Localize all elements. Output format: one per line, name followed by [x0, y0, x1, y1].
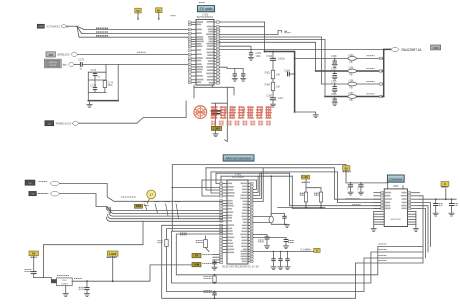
net cap labels	[258, 240, 264, 242]
crystal X501 label tag	[51, 279, 57, 283]
svg-text:5V: 5V	[345, 166, 348, 170]
svg-text:5V: 5V	[32, 252, 36, 256]
capacitor C415	[285, 251, 289, 267]
net accelerator in	[39, 181, 48, 183]
svg-text:C218: C218	[38, 26, 44, 28]
connector label box	[431, 45, 441, 50]
pin tick	[379, 83, 382, 85]
net VCC	[302, 181, 310, 183]
svg-text:10K: 10K	[276, 85, 281, 88]
svg-text:L305: L305	[348, 66, 354, 69]
wire antenna bus	[384, 49, 391, 96]
svg-text:100n: 100n	[278, 97, 284, 100]
net R406 4K7	[314, 193, 319, 195]
net FL401	[196, 241, 203, 243]
svg-text:C309: C309	[331, 67, 337, 70]
net TX RATE IN	[202, 254, 212, 256]
ferrite bead L305	[348, 66, 357, 76]
svg-text:light: light	[62, 64, 67, 67]
svg-text:L307: L307	[348, 92, 354, 95]
ground	[241, 78, 246, 81]
junction	[305, 207, 307, 209]
ground	[213, 134, 218, 137]
svg-text:FB: FB	[349, 99, 352, 102]
wire V2	[225, 87, 228, 141]
resistor C174	[103, 81, 114, 88]
connector J3 ARMED label	[45, 121, 54, 126]
svg-text:C176: C176	[78, 58, 84, 61]
connector antenna	[391, 48, 399, 52]
wire	[305, 202, 307, 208]
capacitor C503	[31, 272, 44, 278]
wire power rail drop	[171, 165, 173, 232]
svg-text:TX: TX	[195, 254, 199, 258]
ground	[449, 213, 454, 216]
net TRUNK OPEN	[96, 27, 108, 29]
svg-text:FB: FB	[349, 74, 352, 77]
wire with jog	[220, 31, 282, 35]
capacitor C501	[347, 182, 353, 192]
wire	[334, 168, 384, 199]
wire	[88, 71, 106, 73]
wire	[60, 194, 223, 211]
svg-text:C312: C312	[331, 80, 337, 83]
watermark text line2	[211, 121, 271, 126]
wire	[79, 36, 191, 38]
svg-text:MC34 GPS RECEIVER DC 3V 1M: MC34 GPS RECEIVER DC 3V 1M	[222, 266, 259, 269]
capacitor C312	[331, 80, 337, 88]
power tag L5V camera	[343, 166, 350, 171]
ground	[63, 294, 68, 297]
connector pin P3	[69, 63, 75, 67]
capacitor C311	[241, 69, 245, 79]
svg-text:C173: C173	[91, 69, 97, 72]
wire	[172, 187, 219, 189]
wire bundle U401 right to bus	[253, 168, 263, 202]
capacitor C302	[249, 52, 262, 58]
wire filter row 2	[316, 70, 348, 72]
wire	[220, 37, 322, 84]
connector J1 AUTOMATIC TRUNK label	[37, 24, 44, 28]
wire	[382, 96, 384, 98]
wire accelerator 5V rail	[172, 164, 346, 166]
svg-text:FB: FB	[349, 61, 352, 64]
IC U401 title	[232, 173, 244, 179]
resistor R406	[319, 192, 322, 202]
wire	[211, 172, 220, 193]
U501 right pins	[401, 192, 420, 210]
capacitor C308	[331, 55, 337, 63]
wire	[220, 176, 221, 186]
power tag A16M	[314, 248, 320, 252]
wire	[420, 203, 431, 247]
U501 left pins	[374, 192, 392, 210]
svg-text:C: C	[347, 187, 349, 190]
svg-text:R303: R303	[265, 71, 271, 74]
svg-text:R304: R304	[265, 83, 271, 86]
wire	[320, 202, 322, 208]
svg-text:L304: L304	[348, 54, 354, 57]
net LOCK	[137, 51, 146, 53]
capacitor C313	[331, 93, 337, 101]
junction	[171, 187, 173, 189]
capacitor C411	[253, 238, 289, 246]
ground	[332, 77, 337, 80]
wire bundle left stack	[107, 207, 111, 214]
ground	[283, 246, 288, 249]
svg-text:SWITCH: SWITCH	[49, 62, 57, 64]
net riser flags	[144, 204, 178, 219]
wire filter row 3	[322, 83, 348, 85]
wire	[357, 70, 380, 72]
power tag CLK	[192, 262, 201, 266]
wire	[112, 256, 114, 281]
wire	[206, 168, 220, 190]
net tiny note	[199, 1, 205, 3]
ground	[278, 267, 283, 270]
net	[442, 186, 448, 188]
wire	[87, 72, 89, 100]
junction	[272, 51, 274, 53]
wire	[137, 13, 139, 20]
capacitor C310	[233, 69, 237, 79]
svg-text:WIRELESS: WIRELESS	[57, 54, 70, 57]
node C381	[171, 15, 177, 17]
wire 10MHz out	[72, 265, 192, 281]
net C506 1u	[454, 203, 458, 205]
ground	[270, 104, 275, 107]
svg-text:C172: C172	[91, 84, 97, 87]
power tag L401	[301, 175, 309, 179]
svg-text:RA4C5997 A1: RA4C5997 A1	[402, 48, 422, 52]
ground	[87, 105, 92, 108]
ground	[271, 223, 287, 224]
capacitor C502	[357, 182, 363, 192]
ferrite bead L306	[348, 79, 357, 89]
resistor R409	[213, 274, 216, 284]
capacitor C305	[266, 91, 284, 104]
net 5V CAMERA	[343, 171, 351, 173]
svg-text:U501: U501	[393, 185, 399, 188]
capacitor C303	[266, 52, 285, 71]
ground	[212, 267, 217, 270]
svg-text:5V: 5V	[136, 9, 139, 13]
net R409 10R	[204, 277, 212, 279]
power tag 5CAM	[441, 182, 449, 187]
wire 5V drop	[345, 165, 347, 183]
resistor R405	[304, 192, 307, 202]
wire	[292, 176, 384, 208]
capacitor C410	[253, 235, 270, 246]
svg-text:C: C	[357, 187, 359, 190]
svg-text:J401: J401	[136, 205, 142, 208]
capacitor C408	[212, 260, 216, 267]
wire	[387, 183, 389, 189]
net TRUNK GND	[96, 35, 108, 37]
wire	[306, 188, 321, 192]
capacitor C413	[271, 251, 275, 267]
wire	[220, 39, 325, 96]
svg-text:C313: C313	[331, 93, 337, 96]
ground	[371, 229, 376, 232]
ground	[413, 229, 418, 232]
IC U401 body	[227, 180, 248, 264]
connector pin P1	[61, 25, 66, 28]
connector pin P4	[72, 121, 78, 125]
net R411	[158, 241, 164, 243]
power tag L302	[211, 126, 221, 130]
svg-text:7.6MHz: 7.6MHz	[61, 283, 68, 285]
junction	[264, 51, 266, 53]
resistor R303	[265, 70, 281, 78]
power tag J401	[135, 204, 143, 208]
wire	[74, 63, 80, 65]
ground	[284, 225, 289, 228]
wire	[66, 25, 77, 27]
capacitor C172	[91, 80, 98, 92]
resistor R411	[165, 240, 168, 247]
pin tick	[379, 57, 382, 59]
wire	[357, 83, 380, 85]
ground	[332, 90, 337, 93]
wire 1.6MHz	[253, 251, 314, 253]
capacitor C506	[449, 198, 454, 212]
net label row 1	[367, 55, 375, 57]
capacitor C309	[331, 67, 337, 75]
wire	[78, 53, 192, 55]
wire	[82, 32, 192, 34]
svg-text:C: C	[444, 182, 446, 186]
junction	[445, 198, 447, 200]
wire fan to bus	[77, 26, 84, 37]
title box Camera	[387, 175, 404, 182]
capacitor C173	[91, 69, 101, 80]
wire	[220, 26, 265, 28]
capacitor C414	[278, 251, 282, 267]
wire	[220, 67, 243, 68]
svg-text:FB: FB	[349, 87, 352, 90]
net C504 10p	[79, 287, 85, 289]
wire	[221, 175, 292, 177]
wire RF out to antenna connector	[220, 48, 391, 50]
wire	[88, 79, 106, 81]
power tag 5V (top)	[135, 8, 141, 13]
ground	[264, 246, 269, 249]
svg-text:100n: 100n	[256, 55, 262, 58]
ground	[84, 294, 89, 297]
crystal X501	[57, 278, 73, 286]
wire	[382, 70, 384, 72]
ground	[332, 103, 337, 106]
U401 left pins	[220, 182, 235, 253]
svg-text:17: 17	[149, 193, 153, 197]
net	[144, 205, 149, 207]
ground	[248, 57, 253, 60]
svg-text:ARMED/LOCK A: ARMED/LOCK A	[56, 123, 74, 126]
ground	[295, 112, 316, 115]
wire left ground fan	[374, 212, 385, 229]
wire	[357, 57, 380, 59]
svg-text:B+: B+	[157, 9, 161, 13]
net PWR	[107, 256, 117, 258]
svg-text:A: A	[316, 248, 318, 252]
U401 right pins	[240, 182, 253, 262]
ground	[348, 192, 353, 195]
net VID SIGNAL	[346, 198, 360, 200]
power tag 5V (bottom)	[29, 251, 38, 256]
junction	[112, 280, 114, 282]
wire	[44, 278, 52, 281]
svg-text:L302: L302	[213, 126, 220, 130]
title box the accelerator	[223, 155, 254, 161]
wire top pin stub	[402, 186, 404, 189]
svg-text:MSCP508: MSCP508	[391, 219, 402, 221]
power tag B+ (top)	[156, 8, 162, 13]
wire GPS-camera bus	[162, 225, 423, 298]
svg-text:C304: C304	[284, 69, 290, 72]
connector J4 label	[25, 180, 35, 185]
net VCC	[31, 256, 37, 258]
capacitor C504	[84, 280, 89, 293]
title box TX radio	[197, 6, 214, 12]
capacitor C304	[284, 69, 296, 76]
wire	[33, 256, 35, 271]
ground	[433, 213, 438, 216]
wire	[290, 173, 385, 206]
wire	[105, 64, 107, 80]
wire	[206, 167, 334, 169]
wire	[382, 83, 384, 85]
wire bus to crystal	[270, 176, 272, 213]
connector J5 label	[29, 191, 37, 195]
connector pin P6	[50, 192, 60, 196]
U301 left pins	[188, 21, 204, 84]
U301 right pins	[206, 21, 220, 84]
wire rail	[278, 207, 325, 209]
resistor R304	[265, 79, 281, 91]
wire	[220, 46, 251, 52]
wire	[83, 63, 192, 65]
svg-text:100n: 100n	[107, 84, 113, 87]
net GC BETOR	[121, 196, 136, 198]
svg-text:Camera: Camera	[389, 178, 402, 182]
annotation circle 17	[147, 190, 156, 204]
watermark logo circle	[194, 106, 207, 119]
ground	[89, 101, 91, 105]
wire	[202, 179, 256, 181]
pin tick	[379, 70, 382, 72]
net bus labels	[379, 243, 387, 245]
svg-text:C308: C308	[331, 55, 337, 58]
IC U301 body	[196, 20, 214, 86]
wire	[88, 91, 106, 93]
wire	[202, 180, 220, 196]
capacitor C176	[78, 58, 84, 70]
crystal Y401	[253, 214, 274, 223]
wire	[338, 172, 385, 203]
filter FL401	[204, 236, 209, 252]
wire filter row 4	[325, 96, 348, 98]
watermark text line1	[211, 106, 272, 118]
junction	[270, 175, 272, 177]
wire	[65, 286, 67, 294]
svg-text:ILLUM: ILLUM	[50, 65, 56, 67]
wire GPS-camera bus	[172, 231, 424, 283]
net C505 1u	[439, 203, 443, 205]
net TRUNK CLOSE	[96, 31, 108, 33]
svg-text:10K: 10K	[276, 73, 281, 76]
svg-text:BA7HC5997FS: BA7HC5997FS	[197, 16, 214, 19]
svg-text:A 1.6MHz: A 1.6MHz	[300, 249, 312, 252]
net C503 10u	[25, 270, 32, 272]
U401 bottom-left pin boxes	[213, 253, 223, 263]
wire filter row 1	[295, 57, 348, 59]
wire	[104, 88, 106, 93]
ground	[232, 78, 237, 81]
wire	[305, 179, 307, 192]
wire 5V rail to camera	[346, 182, 388, 184]
svg-text:MC145483: MC145483	[232, 176, 244, 179]
net X501 title	[57, 274, 69, 276]
wire GPS-camera bus	[167, 229, 424, 292]
wire	[420, 209, 426, 259]
svg-text:L401: L401	[303, 175, 309, 179]
wire bundle	[106, 209, 222, 221]
power tag L3V3	[107, 251, 118, 256]
wire	[60, 184, 223, 202]
pin tick	[379, 95, 382, 97]
wire dashes	[38, 193, 48, 195]
svg-text:C305: C305	[266, 95, 272, 98]
svg-text:Mini accelerator: Mini accelerator	[226, 157, 252, 161]
svg-text:L3V3: L3V3	[109, 252, 117, 256]
wire	[216, 172, 290, 174]
net labels	[180, 233, 187, 235]
wire cam 5V	[420, 198, 457, 200]
ground	[271, 267, 276, 270]
wire GPS-camera bus	[176, 234, 423, 275]
svg-text:C303: C303	[266, 55, 272, 58]
wire	[357, 96, 380, 98]
wire	[84, 29, 191, 31]
net label row 4	[367, 93, 375, 95]
ferrite bead L307	[348, 92, 357, 102]
net stub label	[285, 30, 288, 32]
net label row 2	[367, 67, 375, 69]
svg-text:C318: C318	[433, 47, 439, 50]
wire	[79, 101, 187, 123]
ferrite bead L304	[348, 54, 357, 64]
junction	[294, 58, 296, 60]
net OUT	[74, 277, 82, 279]
svg-text:1000p: 1000p	[278, 57, 285, 60]
wire	[220, 42, 316, 71]
wire	[445, 189, 447, 200]
wire thick branch	[265, 52, 295, 113]
wire	[212, 102, 228, 104]
wire (thick rail)	[88, 100, 118, 102]
connector pin P5	[50, 181, 60, 185]
net label row 3	[367, 80, 375, 82]
wire	[382, 57, 384, 59]
wire	[420, 206, 429, 252]
wire V1	[215, 103, 217, 110]
ground	[332, 65, 337, 68]
net R405 4K7	[300, 193, 305, 195]
connector pin P2	[71, 52, 78, 56]
wire box below IC	[212, 85, 214, 87]
net C409 10p	[204, 291, 212, 293]
